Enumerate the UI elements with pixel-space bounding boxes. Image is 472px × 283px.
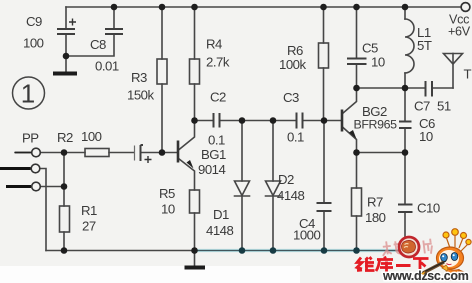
svg-text:100k: 100k — [279, 57, 307, 72]
svg-text:9014: 9014 — [198, 162, 226, 177]
svg-text:2.7k: 2.7k — [206, 55, 230, 70]
svg-text:10: 10 — [161, 202, 175, 217]
svg-text:10: 10 — [371, 55, 385, 70]
svg-text:C2: C2 — [210, 90, 226, 105]
svg-text:R3: R3 — [131, 70, 147, 85]
svg-text:150k: 150k — [127, 88, 155, 103]
svg-text:R5: R5 — [159, 186, 175, 201]
svg-text:100: 100 — [23, 36, 44, 51]
svg-text:4148: 4148 — [206, 223, 234, 238]
svg-text:BG1: BG1 — [201, 147, 226, 162]
svg-text:D2: D2 — [278, 172, 294, 187]
svg-text:PP: PP — [22, 131, 39, 146]
svg-text:0.1: 0.1 — [287, 130, 304, 145]
svg-text:R2: R2 — [57, 130, 73, 145]
svg-text:C7: C7 — [414, 99, 430, 114]
svg-text:BFR965: BFR965 — [354, 118, 398, 132]
svg-text:0.1: 0.1 — [208, 133, 225, 148]
svg-text:27: 27 — [82, 219, 96, 234]
svg-text:T: T — [464, 67, 472, 82]
svg-text:C8: C8 — [90, 37, 106, 52]
svg-text:4148: 4148 — [277, 188, 305, 203]
svg-text:C9: C9 — [26, 14, 42, 29]
svg-text:1: 1 — [21, 79, 35, 109]
svg-text:5T: 5T — [417, 38, 432, 53]
svg-text:D1: D1 — [213, 207, 229, 222]
svg-text:C3: C3 — [283, 90, 299, 105]
svg-text:100: 100 — [81, 129, 102, 144]
svg-text:C10: C10 — [417, 201, 440, 216]
svg-text:+6V: +6V — [448, 25, 471, 39]
svg-text:R4: R4 — [206, 37, 222, 52]
svg-text:R6: R6 — [287, 43, 303, 58]
svg-text:180: 180 — [365, 210, 386, 225]
svg-text:51: 51 — [437, 99, 451, 114]
svg-text:R7: R7 — [367, 195, 383, 210]
svg-text:10: 10 — [419, 129, 433, 144]
svg-text:C5: C5 — [362, 41, 378, 56]
svg-text:1000: 1000 — [293, 228, 321, 243]
svg-text:0.01: 0.01 — [95, 59, 119, 74]
svg-text:R1: R1 — [81, 203, 97, 218]
